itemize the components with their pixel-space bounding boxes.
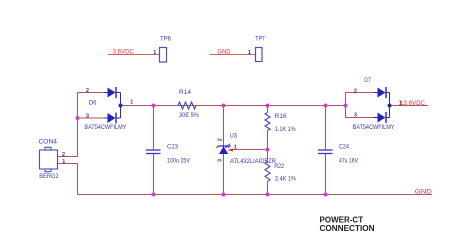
svg-text:1: 1	[130, 100, 133, 106]
svg-text:3.6VDC: 3.6VDC	[113, 49, 135, 56]
svg-text:1: 1	[153, 50, 156, 56]
svg-text:2: 2	[354, 88, 357, 94]
svg-text:TP7: TP7	[255, 36, 265, 43]
svg-text:1: 1	[399, 101, 402, 107]
svg-text:2.4K 1%: 2.4K 1%	[275, 176, 296, 183]
svg-text:BAT54CWFILMY: BAT54CWFILMY	[353, 124, 395, 131]
svg-text:2: 2	[86, 88, 89, 94]
svg-text:GND: GND	[218, 49, 232, 56]
svg-text:C23: C23	[167, 144, 179, 151]
svg-text:3: 3	[86, 113, 89, 119]
svg-text:2: 2	[217, 138, 223, 141]
svg-text:ATL432LIAIDBZR: ATL432LIAIDBZR	[230, 158, 276, 165]
svg-text:1: 1	[62, 159, 65, 165]
svg-text:U3: U3	[230, 133, 238, 140]
svg-text:30E 5%: 30E 5%	[179, 112, 199, 119]
svg-text:2: 2	[62, 152, 65, 158]
svg-text:47u 16V: 47u 16V	[339, 158, 359, 165]
svg-text:R14: R14	[179, 89, 192, 96]
svg-text:D7: D7	[364, 77, 371, 84]
svg-text:TP6: TP6	[160, 36, 172, 43]
svg-text:1: 1	[248, 50, 251, 56]
svg-text:1: 1	[234, 145, 237, 151]
svg-text:BAT54CWFILMY: BAT54CWFILMY	[84, 124, 126, 131]
svg-text:13.6VDC: 13.6VDC	[400, 100, 426, 107]
svg-text:BERG2: BERG2	[39, 173, 59, 180]
svg-text:R16: R16	[275, 113, 287, 120]
svg-text:GND: GND	[415, 189, 433, 196]
svg-text:CON4: CON4	[39, 138, 58, 145]
svg-text:1.1K 1%: 1.1K 1%	[275, 126, 296, 133]
svg-text:3: 3	[217, 159, 223, 162]
svg-text:100u 25V: 100u 25V	[167, 158, 191, 165]
svg-text:CONNECTION: CONNECTION	[320, 223, 375, 233]
svg-text:C24: C24	[339, 144, 349, 151]
svg-text:R22: R22	[274, 163, 284, 170]
svg-text:3: 3	[354, 112, 357, 118]
svg-text:D6: D6	[89, 99, 97, 106]
